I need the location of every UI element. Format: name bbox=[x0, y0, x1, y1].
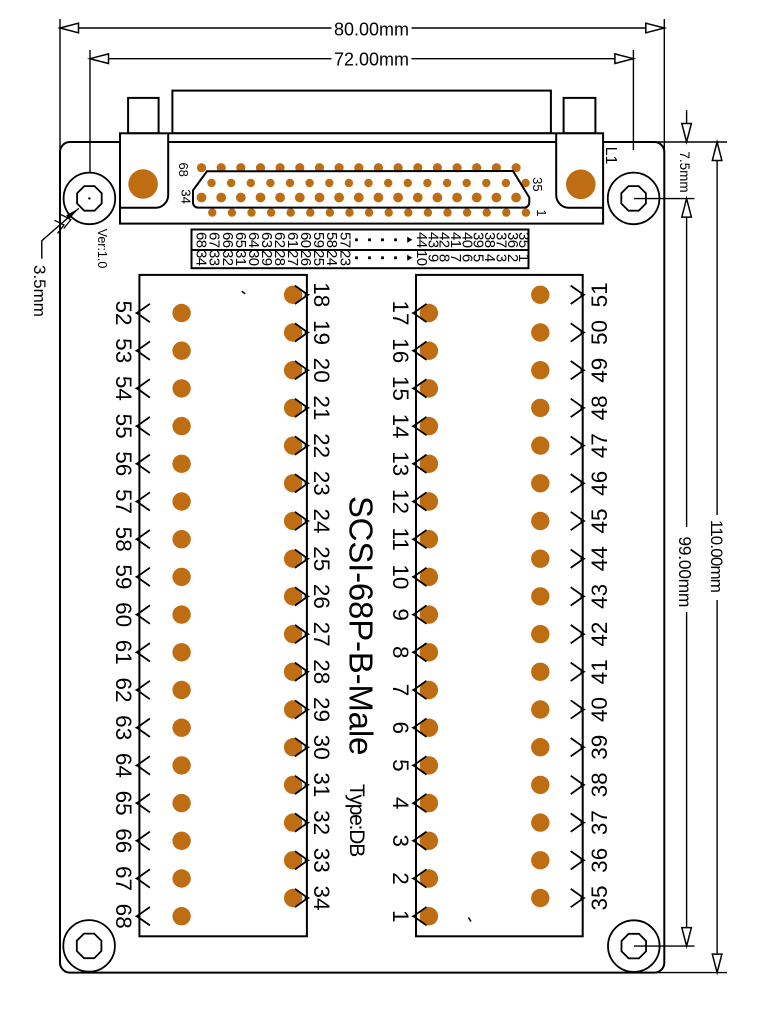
svg-text:27: 27 bbox=[309, 622, 334, 647]
svg-text:58: 58 bbox=[111, 527, 136, 552]
svg-text:45: 45 bbox=[587, 508, 612, 533]
svg-text:34: 34 bbox=[309, 885, 334, 910]
connector J1 pin pads row D (17) bbox=[208, 208, 530, 216]
svg-text:59: 59 bbox=[111, 564, 136, 589]
stray tick mark lower bbox=[469, 918, 472, 922]
svg-text:12: 12 bbox=[388, 489, 413, 514]
svg-text:39: 39 bbox=[587, 735, 612, 760]
svg-text:L1: L1 bbox=[602, 147, 619, 165]
board top edge extension line bbox=[645, 141, 727, 143]
svg-text:57: 57 bbox=[111, 489, 136, 514]
leader arrowhead bbox=[66, 208, 79, 219]
svg-text:3: 3 bbox=[388, 835, 413, 848]
svg-text:49: 49 bbox=[587, 358, 612, 383]
svg-text:37: 37 bbox=[587, 810, 612, 835]
svg-text:29: 29 bbox=[309, 697, 334, 722]
svg-text:25: 25 bbox=[309, 546, 334, 571]
connector J1 left mounting pad bbox=[128, 169, 158, 199]
svg-text:67: 67 bbox=[111, 866, 136, 891]
dimension 80.00mm arrowheads bbox=[60, 23, 79, 33]
connector J1 right ear divider bbox=[556, 133, 603, 208]
svg-text:53: 53 bbox=[111, 338, 136, 363]
dimension 80.00mm extension line right bbox=[663, 19, 665, 163]
leader line 3.5mm bbox=[42, 208, 79, 258]
terminal pads column 18-34 bbox=[284, 286, 302, 908]
connector J1 right mounting pad bbox=[566, 170, 596, 200]
svg-text:80.00mm: 80.00mm bbox=[334, 20, 409, 40]
svg-text:31: 31 bbox=[309, 772, 334, 797]
mounting hole top-left bbox=[64, 173, 116, 225]
svg-text:55: 55 bbox=[111, 414, 136, 439]
svg-text:30: 30 bbox=[309, 735, 334, 760]
dimension 72.00mm line bbox=[90, 58, 332, 60]
svg-text:66: 66 bbox=[111, 828, 136, 853]
svg-text:34: 34 bbox=[179, 189, 194, 203]
svg-text:47: 47 bbox=[587, 433, 612, 458]
svg-text:11: 11 bbox=[388, 528, 413, 551]
stray tick mark upper bbox=[242, 291, 245, 294]
pin map table top row numbers 68-57 bbox=[193, 232, 354, 248]
connector J1 right tab bbox=[564, 98, 596, 133]
svg-text:65: 65 bbox=[111, 791, 136, 816]
pin map table bottom row numbers 10-1 bbox=[413, 250, 532, 266]
terminal pads column 17-1 bbox=[420, 304, 438, 926]
svg-text:46: 46 bbox=[587, 471, 612, 496]
svg-text:23: 23 bbox=[309, 471, 334, 496]
mounting hole bottom-right bbox=[608, 920, 660, 972]
svg-text:41: 41 bbox=[587, 659, 612, 684]
svg-text:1: 1 bbox=[534, 209, 549, 216]
svg-text:99.00mm: 99.00mm bbox=[675, 536, 695, 607]
svg-text:17: 17 bbox=[388, 300, 413, 325]
svg-text:14: 14 bbox=[388, 414, 413, 439]
dimension 80.00mm extension line left bbox=[59, 19, 61, 163]
connector J1 shell bbox=[120, 133, 603, 223]
dimension 99.00mm line bbox=[686, 199, 688, 527]
dimension 110.00mm line bbox=[716, 142, 718, 515]
svg-text:72.00mm: 72.00mm bbox=[334, 49, 409, 69]
svg-text:5: 5 bbox=[388, 759, 413, 772]
terminal pads column 52-68 bbox=[172, 304, 190, 926]
svg-text:50: 50 bbox=[587, 320, 612, 345]
svg-text:35: 35 bbox=[515, 232, 532, 248]
dimension 80.00mm line bbox=[60, 27, 332, 29]
terminal numbers 17-1 bbox=[388, 300, 413, 922]
terminal block left outline bbox=[139, 275, 307, 936]
svg-text:63: 63 bbox=[111, 715, 136, 740]
svg-text:7: 7 bbox=[388, 684, 413, 697]
svg-text:9: 9 bbox=[388, 608, 413, 621]
svg-text:44: 44 bbox=[587, 546, 612, 571]
terminal marks right block left edge bbox=[411, 304, 426, 926]
svg-text:51: 51 bbox=[587, 282, 612, 307]
board bottom edge extension line bbox=[640, 972, 727, 974]
pin map table frame bbox=[192, 230, 529, 269]
svg-text:38: 38 bbox=[587, 772, 612, 797]
svg-text:26: 26 bbox=[309, 584, 334, 609]
connector J1 D-sub face outline bbox=[193, 171, 529, 208]
terminal numbers 18-34 bbox=[309, 282, 334, 910]
svg-text:36: 36 bbox=[587, 848, 612, 873]
hole center extension line top-right bbox=[634, 198, 695, 200]
svg-text:20: 20 bbox=[309, 358, 334, 383]
svg-text:62: 62 bbox=[111, 677, 136, 702]
svg-text:10: 10 bbox=[388, 564, 413, 589]
svg-text:3.5mm: 3.5mm bbox=[30, 265, 49, 317]
dimension 72.00mm extension line right bbox=[632, 50, 634, 150]
svg-text:33: 33 bbox=[309, 848, 334, 873]
svg-text:1: 1 bbox=[388, 910, 413, 923]
svg-text:Ver:1.0: Ver:1.0 bbox=[95, 229, 109, 269]
svg-text:35: 35 bbox=[530, 177, 545, 191]
svg-text:2: 2 bbox=[388, 872, 413, 885]
svg-text:35: 35 bbox=[587, 885, 612, 910]
pin map table bottom row numbers 34-23 bbox=[193, 250, 354, 266]
dimension 99.00mm arrowheads bbox=[682, 199, 692, 218]
svg-text:32: 32 bbox=[309, 810, 334, 835]
pin map table ellipsis dots bbox=[355, 237, 412, 261]
connector J1 left ear divider bbox=[120, 133, 168, 208]
svg-text:110.00mm: 110.00mm bbox=[707, 520, 726, 593]
terminal pads column 51-35 bbox=[531, 286, 549, 908]
svg-text:56: 56 bbox=[111, 451, 136, 476]
hole center extension line bottom-right bbox=[634, 945, 695, 947]
svg-text:23: 23 bbox=[336, 250, 353, 266]
svg-text:18: 18 bbox=[309, 282, 334, 307]
svg-text:6: 6 bbox=[388, 721, 413, 734]
svg-text:52: 52 bbox=[111, 300, 136, 325]
dimension 110.00mm arrowheads bbox=[712, 142, 722, 161]
svg-text:40: 40 bbox=[587, 697, 612, 722]
svg-text:21: 21 bbox=[309, 395, 334, 420]
svg-text:13: 13 bbox=[388, 451, 413, 476]
svg-text:8: 8 bbox=[388, 646, 413, 659]
svg-text:68: 68 bbox=[176, 162, 191, 176]
svg-text:64: 64 bbox=[111, 753, 136, 778]
terminal marks left block right edge bbox=[295, 286, 310, 908]
connector J1 pin pads row B (17) bbox=[207, 179, 530, 187]
svg-text:60: 60 bbox=[111, 602, 136, 627]
svg-text:SCSI-68P-B-Male: SCSI-68P-B-Male bbox=[343, 496, 380, 755]
svg-text:15: 15 bbox=[388, 376, 413, 401]
connector J1 pin pads row C (17) bbox=[197, 193, 521, 203]
svg-text:48: 48 bbox=[587, 395, 612, 420]
svg-text:28: 28 bbox=[309, 659, 334, 684]
dimension 7.5mm upper arrow bbox=[686, 110, 688, 142]
pin map table divider bbox=[192, 249, 529, 251]
terminal numbers 51-35 bbox=[587, 282, 612, 910]
svg-text:42: 42 bbox=[587, 622, 612, 647]
svg-text:19: 19 bbox=[309, 320, 334, 345]
svg-text:Type:DB: Type:DB bbox=[345, 784, 368, 856]
svg-text:4: 4 bbox=[388, 797, 413, 810]
svg-text:7.5mm: 7.5mm bbox=[677, 151, 692, 192]
terminal marks right block right edge bbox=[571, 286, 586, 908]
terminal marks left block left edge bbox=[135, 304, 150, 926]
dimension 72.00mm extension line left bbox=[89, 50, 91, 174]
connector J1 left tab bbox=[128, 98, 159, 133]
svg-text:16: 16 bbox=[388, 338, 413, 363]
svg-text:68: 68 bbox=[111, 904, 136, 929]
dimension 72.00mm arrowheads bbox=[90, 54, 109, 64]
svg-text:57: 57 bbox=[336, 232, 353, 248]
svg-text:22: 22 bbox=[309, 433, 334, 458]
svg-text:1: 1 bbox=[515, 254, 532, 262]
mounting hole top-right bbox=[608, 173, 660, 225]
mounting hole bottom-left bbox=[63, 920, 115, 972]
connector J1 rear body bbox=[172, 91, 551, 134]
terminal numbers 52-68 bbox=[111, 300, 136, 928]
svg-text:43: 43 bbox=[587, 584, 612, 609]
board top edge visible through connector shell bbox=[168, 141, 556, 143]
svg-text:54: 54 bbox=[111, 376, 136, 401]
svg-text:61: 61 bbox=[111, 640, 136, 665]
terminal block right outline bbox=[416, 275, 583, 936]
PCB board outline bbox=[60, 142, 664, 973]
svg-text:24: 24 bbox=[309, 508, 334, 533]
connector J1 pin pads row A (17) bbox=[197, 163, 521, 172]
pin map table top row numbers 44-35 bbox=[413, 232, 532, 248]
